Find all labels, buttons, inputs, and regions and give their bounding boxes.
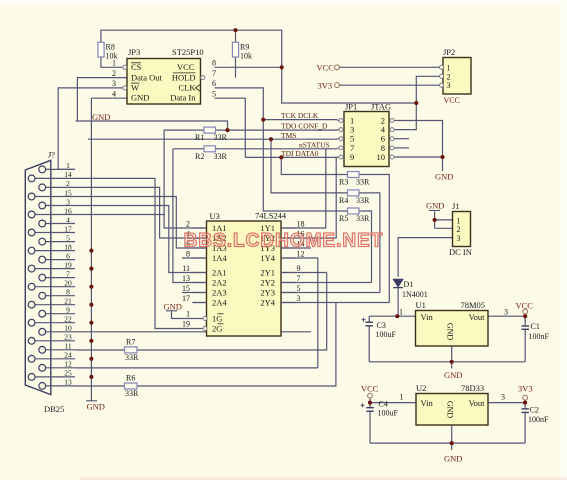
wire C4 bottom stub xyxy=(369,411,371,443)
svg-text:JP2: JP2 xyxy=(443,47,455,57)
connector J1 DC IN xyxy=(453,212,471,247)
wire U3 pin14 1Y3 xyxy=(281,247,311,249)
svg-text:W: W xyxy=(131,83,139,93)
junction U2 GND rail xyxy=(450,441,454,445)
resistor R9 10k xyxy=(232,42,238,57)
svg-text:C2: C2 xyxy=(530,406,539,415)
svg-text:D1: D1 xyxy=(404,280,414,289)
junction J1 GND pins xyxy=(433,218,437,222)
wire JP1 pin10 to GND xyxy=(397,156,443,158)
junction D1 / C3 / U1 Vin xyxy=(395,314,399,318)
svg-text:17: 17 xyxy=(182,294,190,303)
DB25 pin 20 xyxy=(35,286,75,288)
svg-text:2: 2 xyxy=(112,69,116,78)
junction GND bus DB25 pin 24 xyxy=(89,357,93,361)
svg-text:5: 5 xyxy=(212,89,216,98)
DB25 pin 12 xyxy=(46,367,75,369)
junction TCK rail branch xyxy=(261,118,265,122)
svg-text:U2: U2 xyxy=(416,383,426,393)
junction GND bus DB25 pin 21 xyxy=(89,303,93,307)
svg-text:16: 16 xyxy=(64,206,72,215)
junction TMS rail branch xyxy=(269,137,273,141)
svg-text:3V3: 3V3 xyxy=(518,384,533,394)
wire U1 GND pin xyxy=(451,346,453,362)
svg-text:78D33: 78D33 xyxy=(461,383,484,393)
wire U3 pin5 2Y3 xyxy=(281,292,380,294)
wire nSTATUS rail through R2 xyxy=(173,148,338,150)
resistor R6 33R xyxy=(125,383,138,389)
wire U3 pin9 2Y1 xyxy=(281,272,327,274)
svg-text:1: 1 xyxy=(399,308,403,317)
svg-text:R7: R7 xyxy=(126,337,135,346)
IC U3 74LS244 buffer xyxy=(207,221,282,336)
wire U2 Vout to 3V3 xyxy=(488,402,525,404)
wire R3 right down xyxy=(359,175,389,303)
wire J1 pin2 xyxy=(435,227,453,229)
wire JP3 pin4 GND down = GND bus xyxy=(91,98,127,400)
wire R9 bottom to JP3 pin7 xyxy=(235,57,237,78)
wire J1 pin3 to D1 anode xyxy=(398,238,452,277)
JP1 pin 10 xyxy=(389,156,397,158)
svg-text:2: 2 xyxy=(447,72,451,81)
svg-text:GND: GND xyxy=(131,93,149,103)
JP1 pin 1 xyxy=(338,120,345,122)
wire C3 bottom stub xyxy=(368,326,370,362)
capacitor C1 100nF xyxy=(522,325,530,327)
JP1 pin 2 xyxy=(389,120,397,122)
U3 pin 5 2Y3 xyxy=(281,292,295,294)
svg-text:19: 19 xyxy=(64,260,72,269)
wire JP3 pin2 DataOut down to TDO rail xyxy=(77,78,127,121)
JP1 pin 4 xyxy=(389,129,397,131)
DB25 pin 7 xyxy=(46,277,75,279)
U3 pin 6 1A3 xyxy=(192,247,206,249)
wire U3 2A4 stub xyxy=(192,302,206,304)
svg-text:23: 23 xyxy=(64,333,72,342)
svg-text:TDO CONF_D: TDO CONF_D xyxy=(281,122,328,131)
svg-text:Vout: Vout xyxy=(469,312,486,322)
wire DB25 pin14 to U3 2G xyxy=(75,178,203,328)
DB25 pin 15 xyxy=(35,196,75,198)
svg-text:5: 5 xyxy=(66,233,70,242)
svg-text:7: 7 xyxy=(66,269,70,278)
wire C2 bottom stub xyxy=(524,412,526,443)
svg-text:4: 4 xyxy=(66,215,70,224)
svg-text:14: 14 xyxy=(64,170,72,179)
capacitor C3 100uF xyxy=(366,321,374,323)
wire U3 pin7 2Y2 xyxy=(281,282,372,284)
wire U2 GND symbol stub xyxy=(451,443,453,450)
wire JP1 pin6 stub xyxy=(397,138,410,140)
svg-text:CLK: CLK xyxy=(179,83,197,93)
svg-text:12: 12 xyxy=(64,360,72,369)
wire TMS rail xyxy=(88,138,338,140)
svg-text:20: 20 xyxy=(64,279,72,288)
resistor R1 33R xyxy=(204,127,216,133)
resistor R2 33R xyxy=(204,146,216,152)
wire VCC to JP2 pin1 xyxy=(340,66,442,68)
wire U3 pin16 1Y2 up to TDI xyxy=(281,157,336,238)
svg-text:10: 10 xyxy=(377,152,386,162)
wire TDI DATA0 rail xyxy=(245,156,337,158)
JP3 pin 3 bubble xyxy=(123,86,127,90)
wire J1 pin1 xyxy=(435,219,453,221)
junction R9 top rail xyxy=(233,28,237,32)
wire U3 pin12 1Y4 down to DB25 pin12 xyxy=(281,258,318,368)
svg-text:U3: U3 xyxy=(210,211,220,221)
U3 pin 1 1G xyxy=(192,318,203,320)
junction GND bus DB25 pin 22 xyxy=(89,321,93,325)
JP3 pin 6 clock wedge xyxy=(195,84,200,91)
overline CS xyxy=(131,62,141,64)
svg-text:VCC: VCC xyxy=(361,384,379,394)
wire D1 cathode down to U1 Vin xyxy=(397,288,399,316)
DB25 pin 10 xyxy=(46,331,75,333)
svg-text:33R: 33R xyxy=(356,178,370,187)
svg-text:DB25: DB25 xyxy=(44,404,64,414)
DB25 pin 24 xyxy=(35,358,75,360)
svg-text:3: 3 xyxy=(66,197,70,206)
wire C3 top stub xyxy=(368,316,370,322)
DB25 pin 18 xyxy=(35,250,75,252)
svg-text:Vin: Vin xyxy=(421,398,434,408)
svg-text:100nF: 100nF xyxy=(528,415,549,424)
ground symbol at GND bus bottom xyxy=(86,400,97,402)
wire 3V3 to JP2 pin3 xyxy=(340,84,442,86)
svg-text:1G: 1G xyxy=(212,314,222,324)
svg-text:2Y1: 2Y1 xyxy=(260,268,275,278)
DB25 pin 1 xyxy=(46,168,75,170)
wire DB25 pin16 xyxy=(75,214,165,216)
svg-text:9: 9 xyxy=(350,152,354,162)
svg-text:6: 6 xyxy=(212,79,216,88)
svg-text:15: 15 xyxy=(182,284,190,293)
wire VCC net to JP2/JP1 pin4 xyxy=(282,67,417,103)
svg-text:TCK DCLK: TCK DCLK xyxy=(281,111,319,120)
U3 pin 16 1Y2 xyxy=(281,237,295,239)
svg-text:3: 3 xyxy=(504,308,508,317)
svg-text:2A3: 2A3 xyxy=(212,288,227,298)
DB25 pin 6 xyxy=(46,259,75,261)
wire U2 Vin input xyxy=(370,402,416,404)
DB25 pin 17 xyxy=(35,232,75,234)
wire JP1 pin4 to VCC / JP2 pin2 xyxy=(397,76,442,129)
wire U2 GND pin xyxy=(451,425,453,443)
svg-text:17: 17 xyxy=(64,224,72,233)
svg-text:33R: 33R xyxy=(356,214,370,223)
IC U2 78D33 regulator xyxy=(416,394,488,426)
svg-text:19: 19 xyxy=(182,320,190,329)
svg-text:C3: C3 xyxy=(377,321,386,330)
wire JP3 pin1 CS xyxy=(101,66,123,68)
svg-text:C1: C1 xyxy=(531,322,540,331)
svg-text:JTAG: JTAG xyxy=(371,102,391,112)
svg-text:GND: GND xyxy=(446,401,455,419)
svg-text:Vin: Vin xyxy=(421,312,434,322)
DB25 pin 8 xyxy=(46,295,75,297)
JP1 pin 7 xyxy=(338,147,345,149)
svg-text:1Y4: 1Y4 xyxy=(260,253,275,263)
wire DB25 pin15 to U3 1A3 xyxy=(75,197,207,249)
svg-text:22: 22 xyxy=(64,315,72,324)
diode D1 1N4001 xyxy=(393,279,403,287)
wire DB25 pin11 through R7 to U3 2Y1 xyxy=(75,273,327,351)
wire C2 top stub xyxy=(524,400,526,409)
svg-text:2: 2 xyxy=(66,179,70,188)
wire C4 top stub xyxy=(369,403,371,408)
svg-text:JP1: JP1 xyxy=(345,102,357,112)
junction U1 GND rail xyxy=(450,360,454,364)
svg-text:TMS: TMS xyxy=(281,131,296,140)
connector JP2 xyxy=(443,58,471,95)
svg-text:8: 8 xyxy=(212,59,216,68)
wire C1 top stub xyxy=(524,314,526,326)
svg-text:HOLD: HOLD xyxy=(172,72,196,82)
svg-text:2G: 2G xyxy=(212,324,222,334)
resistor R7 33R xyxy=(125,347,138,353)
svg-text:33R: 33R xyxy=(214,133,228,142)
svg-text:78M05: 78M05 xyxy=(461,300,486,310)
U3 pin 4 1A2 xyxy=(192,237,206,239)
overline HOLD xyxy=(173,72,196,74)
junction VCC / C4 / U2 Vin xyxy=(368,401,372,405)
U3 pin 13 2A2 xyxy=(192,282,206,284)
DB25 pin 3 xyxy=(46,205,75,207)
U3 pin 18 1Y1 xyxy=(281,227,295,229)
junction TDI rail branch xyxy=(279,155,283,159)
capacitor C2 100nF xyxy=(521,408,529,410)
svg-text:9: 9 xyxy=(66,306,70,315)
svg-text:1: 1 xyxy=(112,59,116,68)
connector J7 DB25 xyxy=(25,160,51,394)
svg-text:Data In: Data In xyxy=(170,92,196,102)
wire R9 top xyxy=(235,30,237,42)
JP1 pin 8 xyxy=(389,147,397,149)
U3 pin 2 1A1 xyxy=(192,227,206,229)
JP1 pin 5 xyxy=(338,138,345,140)
svg-text:100uF: 100uF xyxy=(376,330,397,339)
svg-text:JP3: JP3 xyxy=(128,47,140,57)
svg-text:10k: 10k xyxy=(240,52,252,61)
svg-text:R4: R4 xyxy=(339,196,348,205)
svg-text:25: 25 xyxy=(64,369,72,378)
svg-text:21: 21 xyxy=(64,297,72,306)
U3 pin 11 2A1 xyxy=(192,272,206,274)
U3 pin 15 2A3 xyxy=(192,292,206,294)
wire TDI branch down to R3 left xyxy=(281,157,347,174)
svg-text:3: 3 xyxy=(457,234,461,243)
svg-text:18: 18 xyxy=(297,220,305,229)
junction GND bus DB25 pin 19 xyxy=(89,267,93,271)
svg-text:9: 9 xyxy=(297,264,301,273)
overline W xyxy=(131,82,140,84)
wire DB25 pin10 xyxy=(75,331,311,333)
svg-text:15: 15 xyxy=(64,188,72,197)
svg-text:11: 11 xyxy=(64,342,71,351)
junction GND bus DB25 pin 18 xyxy=(89,249,93,253)
wire R8 bottom to JP3 pin1 xyxy=(100,57,102,67)
JP1 pin 6 xyxy=(389,138,397,140)
wire J1 GND drop xyxy=(434,212,436,229)
junction GND bus DB25 pin 20 xyxy=(89,285,93,289)
wire U1 Vout to VCC xyxy=(488,315,525,317)
svg-text:VCC: VCC xyxy=(444,96,460,105)
svg-text:VCC: VCC xyxy=(177,62,195,72)
svg-text:1: 1 xyxy=(400,393,404,402)
svg-text:3V3: 3V3 xyxy=(318,80,333,90)
wire C1 bottom stub xyxy=(524,329,526,362)
svg-text:7: 7 xyxy=(297,274,301,283)
svg-text:3: 3 xyxy=(112,79,116,88)
svg-text:5: 5 xyxy=(297,284,301,293)
svg-text:BBS.LCDHOME.NET: BBS.LCDHOME.NET xyxy=(184,231,384,252)
DB25 pin 14 xyxy=(35,177,75,179)
wire U1 GND symbol stub xyxy=(451,362,453,369)
svg-text:GND: GND xyxy=(426,201,444,211)
svg-text:2: 2 xyxy=(186,220,190,229)
IC U1 78M05 regulator xyxy=(416,311,489,347)
wire DB25 pin12 xyxy=(75,367,318,369)
junction GND bus DB25 pin 25 xyxy=(89,375,93,379)
svg-text:33R: 33R xyxy=(356,196,370,205)
svg-text:8: 8 xyxy=(66,288,70,297)
svg-text:J1: J1 xyxy=(452,201,460,211)
junction GND bus DB25 pin 23 xyxy=(89,339,93,343)
DB25 pin 22 xyxy=(35,322,75,324)
U3 pin 12 1Y4 xyxy=(281,257,295,259)
wire DB25 pin3 to U3 2A1 xyxy=(75,206,207,273)
wire U3 1A4 stub xyxy=(182,257,207,259)
svg-text:GND: GND xyxy=(435,172,453,182)
wire U1 Vin input node xyxy=(369,315,415,317)
svg-text:33R: 33R xyxy=(125,389,139,398)
svg-text:100uF: 100uF xyxy=(378,409,399,418)
wire TDO CONF_D rail through R1, corner down to U3 1A1 xyxy=(164,130,337,228)
capacitor C4 100uF xyxy=(366,407,374,409)
wire DB25 pin13 through R6 xyxy=(75,303,336,387)
junction U2 Vout 3V3 C2 xyxy=(523,401,527,405)
DB25 pin 19 xyxy=(35,268,75,270)
wire VCC pull-up top rail xyxy=(101,30,282,67)
svg-text:GND: GND xyxy=(444,454,462,464)
svg-text:U1: U1 xyxy=(416,300,426,310)
svg-text:10: 10 xyxy=(64,324,72,333)
svg-text:2Y3: 2Y3 xyxy=(260,288,275,298)
DB25 pin 2 xyxy=(46,186,75,188)
DB25 pin 9 xyxy=(46,313,75,315)
svg-text:R3: R3 xyxy=(339,178,348,187)
DB25 pin 16 xyxy=(35,214,75,216)
ground symbol at J1 xyxy=(429,210,440,212)
junction R1 right / CS rail xyxy=(225,128,229,132)
DB25 pin 23 xyxy=(35,340,75,342)
svg-text:Data Out: Data Out xyxy=(131,72,163,82)
U3 pin 17 2A4 xyxy=(192,302,206,304)
svg-text:R5: R5 xyxy=(339,214,348,223)
svg-text:R6: R6 xyxy=(126,373,135,382)
junction U1 Vout VCC C1 xyxy=(523,314,527,318)
svg-text:100nF: 100nF xyxy=(529,332,550,341)
svg-text:GND: GND xyxy=(444,370,462,380)
wire JP1 pin2 down to GND xyxy=(397,121,443,172)
JP3 pin 7 bubble xyxy=(201,76,205,80)
wire U3 1G to GND symbol xyxy=(172,311,193,319)
resistor R3 33R xyxy=(348,172,360,178)
svg-text:3: 3 xyxy=(447,81,451,90)
svg-text:4: 4 xyxy=(112,89,116,98)
svg-text:11: 11 xyxy=(182,264,190,273)
wire JP3 pin8 VCC xyxy=(215,66,282,68)
svg-text:Vout: Vout xyxy=(469,398,486,408)
svg-text:ST25P10: ST25P10 xyxy=(172,47,204,57)
wire DB25 pin2 to U3 1A2 xyxy=(75,187,207,238)
svg-text:3: 3 xyxy=(297,294,301,303)
resistor R5 33R xyxy=(348,208,360,214)
wire R5 right down xyxy=(359,211,372,283)
wire JP1 pin8 stub xyxy=(397,147,410,149)
U3 pin 19 2G xyxy=(203,327,207,331)
wire nSTATUS branch down to U3 2A2 xyxy=(173,149,207,283)
svg-text:TDI DATA0: TDI DATA0 xyxy=(281,149,319,158)
JP1 pin 3 xyxy=(338,129,345,131)
U3 pin 14 1Y3 xyxy=(281,247,295,249)
svg-text:R2: R2 xyxy=(195,152,204,161)
svg-text:J?: J? xyxy=(48,150,55,160)
svg-text:24: 24 xyxy=(64,351,72,360)
resistor R8 10k xyxy=(98,42,104,57)
wire JP3 pin5 DataIn down to TDI rail xyxy=(215,98,246,157)
DB25 pin 25 xyxy=(35,376,75,378)
svg-text:GND: GND xyxy=(164,302,182,312)
DB25 pin 4 xyxy=(46,223,75,225)
wire R4 right down xyxy=(359,193,380,293)
JP1 pin 9 xyxy=(338,156,345,158)
DB25 pin 21 xyxy=(35,304,75,306)
wire U2 ground rail xyxy=(370,442,525,444)
svg-text:13: 13 xyxy=(182,274,190,283)
svg-text:1A4: 1A4 xyxy=(212,253,227,263)
svg-text:R8: R8 xyxy=(106,43,115,52)
svg-text:7: 7 xyxy=(212,69,216,78)
svg-text:2: 2 xyxy=(457,225,461,234)
svg-text:GND: GND xyxy=(87,402,105,412)
wire U3 pin3 2Y4 xyxy=(281,302,389,304)
svg-text:R9: R9 xyxy=(240,43,249,52)
svg-text:GND: GND xyxy=(92,112,110,122)
svg-text:1: 1 xyxy=(447,63,451,72)
resistor R4 33R xyxy=(348,190,360,196)
svg-text:6: 6 xyxy=(66,251,70,260)
U3 pin 7 2Y2 xyxy=(281,282,295,284)
IC JP3 ST25P10 serial flash xyxy=(127,59,201,105)
wire JP3 pin3 W to DB25 pin1 xyxy=(58,88,123,169)
svg-text:DC IN: DC IN xyxy=(449,247,472,257)
wire U1 ground rail xyxy=(369,361,525,363)
wire CS rail to R1 right junction xyxy=(76,121,228,130)
junction VCC pullup rail / JP3 pin8 xyxy=(280,65,284,69)
junction VCC net at JP2 branch xyxy=(414,101,418,105)
U3 pin 9 2Y1 xyxy=(281,272,295,274)
U3 pin 3 2Y4 xyxy=(281,302,295,304)
JP3 pin 1 bubble xyxy=(123,65,127,69)
connector JP1 JTAG xyxy=(344,112,389,167)
svg-text:3: 3 xyxy=(501,393,505,402)
svg-text:74LS244: 74LS244 xyxy=(255,211,287,221)
junction JP1 pin2/pin10 GND xyxy=(440,155,444,159)
svg-text:33R: 33R xyxy=(125,353,139,362)
svg-text:33R: 33R xyxy=(214,152,228,161)
svg-text:2A1: 2A1 xyxy=(212,268,227,278)
